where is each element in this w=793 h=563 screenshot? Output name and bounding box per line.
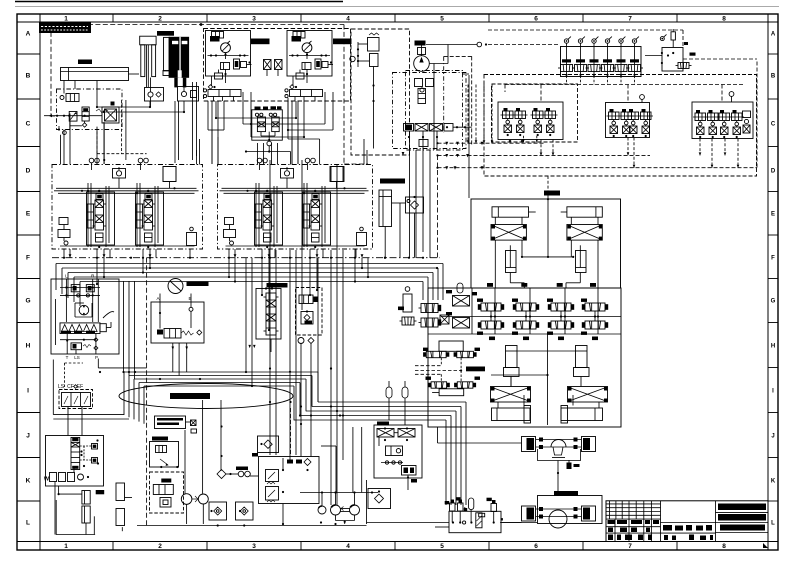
svg-text:8: 8 [722, 16, 726, 23]
bus bundle A [56, 264, 443, 307]
pump control valve array [404, 124, 454, 147]
charge valve boundary [57, 89, 123, 130]
aux check box [368, 489, 391, 509]
pump label [415, 41, 426, 46]
steering metering valve [60, 322, 111, 334]
svg-text:K: K [26, 477, 31, 484]
charge valve V4 [69, 112, 77, 122]
axle valve box L [498, 102, 563, 143]
bundle C crossing dots [269, 367, 344, 416]
svg-text:I: I [27, 387, 29, 394]
corner mark [763, 543, 768, 548]
svg-text:C: C [26, 120, 31, 127]
swing motor [75, 303, 114, 318]
svg-text:A: A [771, 31, 776, 37]
charge block wires [44, 100, 147, 164]
rear jack cyl 1 [504, 346, 520, 377]
telescopic cylinder label [380, 179, 405, 184]
rear axle AX1 [522, 437, 596, 496]
rear frame box [428, 288, 621, 427]
bus bundle B [53, 359, 318, 424]
tank label [96, 490, 105, 494]
pilot feed line [426, 42, 560, 63]
rear cylinder RC2 [561, 406, 603, 424]
junction dots [130, 43, 423, 373]
priority valve wires [68, 407, 82, 436]
svg-text:5: 5 [440, 16, 444, 23]
suspension valve row 1 [477, 299, 608, 318]
oil supply unit [435, 497, 503, 533]
test point ellipse [119, 384, 293, 409]
svg-text:3: 3 [252, 16, 256, 23]
front axle AX2 [500, 491, 602, 528]
reducing valve box [252, 106, 282, 140]
front jack cyl 1 [506, 245, 517, 272]
svg-text:8: 8 [722, 543, 726, 550]
tank stack 1 [58, 491, 91, 524]
svg-text:B: B [771, 73, 776, 79]
accumulator A1 (bladder type) [140, 36, 156, 87]
front frame feed [463, 74, 470, 198]
valve block port drops [64, 249, 356, 331]
pilot source relief 1 [266, 470, 279, 485]
svg-text:J: J [771, 433, 774, 439]
svg-text:H: H [26, 342, 31, 349]
pilot-to-block wires [208, 92, 333, 165]
steering control valve [71, 438, 99, 470]
front frame label [544, 176, 560, 199]
axle bus lines [436, 85, 757, 169]
bus bundle C [294, 402, 466, 505]
filter unit [150, 472, 184, 513]
bank right trunk [683, 59, 757, 168]
bank manifold box [645, 42, 696, 71]
pilot shuttle valves [264, 60, 283, 77]
svg-text:CF: CF [67, 384, 74, 390]
charge valve V3 [60, 94, 79, 102]
svg-text:P: P [95, 355, 98, 360]
front jack cyl 2 [576, 245, 587, 272]
front cylinder FC1 [492, 207, 536, 217]
bundle junction dots [99, 257, 438, 417]
pump regulators [415, 79, 434, 104]
tank T1 [61, 60, 140, 81]
tank stack 2 [116, 483, 132, 526]
tank stack wires [56, 500, 123, 535]
front frame link [510, 198, 580, 288]
bus row F dash-dot [52, 23, 440, 259]
top chrome rule [15, 6, 779, 8]
pump discharge wires [410, 131, 438, 258]
charge spool V5 [82, 107, 89, 127]
priority valve boundary [59, 390, 93, 409]
charge collector wires [96, 101, 185, 113]
rear xframe X3 [491, 387, 531, 403]
axle valve box R [692, 92, 753, 139]
pilot control boundary [204, 29, 351, 102]
swing circuit box [51, 274, 119, 355]
svg-text:6: 6 [534, 16, 538, 23]
svg-text:1: 1 [64, 543, 68, 550]
axle valve box L boundary [492, 84, 578, 142]
svg-text:L: L [771, 520, 775, 526]
accumulator feed wires [175, 82, 197, 163]
pilot source box [259, 457, 320, 504]
telescopic cylinder CYL-T [379, 190, 392, 258]
pilot source relief 2 [266, 487, 279, 503]
title block [606, 501, 768, 542]
pilot source fittings [250, 453, 311, 493]
steering pilot valve [60, 334, 98, 355]
brake spool stack [264, 293, 279, 352]
svg-text:J: J [26, 432, 30, 439]
front cylinder FC2 [561, 207, 603, 217]
svg-text:H: H [771, 343, 775, 349]
trunk wires col3 [245, 249, 369, 402]
priority valve PV [62, 385, 91, 407]
return line [137, 480, 449, 526]
charge pilot box [96, 102, 119, 124]
svg-text:2: 2 [158, 543, 162, 550]
rear cylinder RC1 [492, 406, 531, 424]
suspension valve row 2 [477, 317, 608, 335]
svg-text:G: G [25, 297, 30, 304]
brake filter box [296, 288, 323, 457]
pilot relief valve [350, 33, 379, 149]
brake valve box [256, 287, 281, 339]
front xframe X2 [567, 225, 602, 241]
brake supply label [267, 283, 288, 288]
brake valve V10 [299, 295, 318, 304]
front frame box [471, 199, 621, 288]
svg-text:B: B [26, 72, 31, 79]
svg-text:K: K [771, 478, 776, 484]
block1-2 pipe stubs [197, 139, 368, 165]
svg-text:LS: LS [74, 355, 80, 360]
main valve block MB1 [52, 158, 203, 249]
svg-text:C: C [771, 121, 776, 127]
AC motor box [151, 296, 204, 343]
main valve block MB2 [218, 158, 373, 249]
svg-text:E: E [26, 210, 31, 217]
bank valve box [561, 47, 642, 77]
left solenoid group [398, 283, 477, 328]
svg-text:F: F [771, 255, 775, 261]
steering unit box [46, 436, 104, 487]
park brake box [301, 310, 313, 324]
reducing valve RV2 [272, 117, 280, 132]
steering wires [55, 468, 74, 535]
svg-text:A: A [26, 30, 31, 37]
aux manifold [374, 422, 422, 491]
priority port labels [58, 363, 83, 390]
axle valve box M [606, 95, 654, 138]
bank extra pilot [660, 29, 675, 48]
gauge isolator [217, 425, 250, 478]
svg-text:W: W [44, 477, 50, 483]
pump group [300, 427, 378, 524]
svg-text:3: 3 [252, 543, 256, 550]
reducing valve drains [245, 98, 320, 165]
AC motor valve [157, 329, 194, 339]
rear frame wires [491, 334, 599, 425]
AC motor M1 [168, 279, 209, 294]
axle system boundary [484, 75, 757, 177]
svg-text:1: 1 [64, 16, 68, 23]
axle feed wires [438, 427, 522, 443]
note block [155, 416, 197, 433]
svg-text:EF: EF [77, 384, 83, 390]
svg-text:2: 2 [158, 16, 162, 23]
svg-text:A: A [156, 296, 159, 301]
svg-text:7: 7 [628, 16, 632, 23]
svg-text:LS: LS [58, 384, 65, 390]
pump region dashes [434, 56, 483, 169]
check box CB1 [258, 436, 279, 453]
pilot valve group PG2 [285, 31, 352, 102]
pilot relief boundary [351, 29, 410, 156]
top chrome line [15, 1, 343, 3]
trunk wires [124, 101, 438, 528]
svg-text:6: 6 [534, 543, 538, 550]
svg-text:7: 7 [628, 543, 632, 550]
steering port labels [66, 355, 98, 360]
pilot supply boundary dash [51, 25, 368, 165]
front xframe X1 [491, 225, 526, 241]
suspension pilot pairs [415, 341, 485, 396]
swing relief pair [60, 285, 100, 297]
AC motor wires [159, 294, 202, 376]
svg-text:4: 4 [346, 16, 350, 23]
bank boundary dash [488, 30, 683, 47]
shuttle capsules [386, 381, 408, 425]
steering feedback pump [44, 473, 89, 483]
transmission reducing valve [150, 437, 179, 469]
svg-text:L: L [26, 519, 30, 526]
rear jack cyl 2 [574, 346, 590, 377]
svg-text:D: D [26, 167, 31, 174]
accumulator valve V2 [178, 82, 199, 102]
power unit tie [501, 522, 538, 524]
gear pump note wires [185, 400, 221, 494]
front frame ports [487, 283, 596, 287]
solenoid pilot bank [558, 37, 643, 85]
reducing valve RV1 [257, 117, 265, 132]
solenoid drop lines [505, 85, 745, 103]
rear port labels [489, 337, 598, 341]
svg-text:G: G [771, 298, 776, 304]
fan pumps [181, 494, 208, 524]
check valve block CV1 [392, 196, 424, 258]
front stems [495, 217, 598, 288]
svg-text:E: E [771, 211, 775, 217]
svg-text:T: T [66, 355, 69, 360]
accumulator valve V1 [145, 78, 164, 108]
suction strainers [209, 502, 253, 527]
svg-text:5: 5 [440, 543, 444, 550]
pilot valve group PG1 [203, 31, 269, 102]
main pump P1 [414, 46, 430, 72]
drawing title bar [39, 23, 91, 34]
rear xframe X4 [568, 387, 608, 403]
svg-text:F: F [26, 254, 30, 261]
pump boundary [393, 71, 467, 151]
accumulator A2 (charged, black) [157, 31, 189, 87]
tank T1 outlet wires [51, 81, 104, 165]
svg-text:4: 4 [346, 543, 350, 550]
svg-text:D: D [771, 168, 776, 174]
